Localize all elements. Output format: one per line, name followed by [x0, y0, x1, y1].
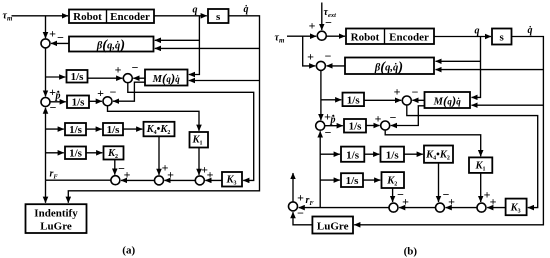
- svg-text:1/s: 1/s: [346, 175, 360, 187]
- block s: [208, 9, 229, 23]
- wire rF up into S3: [45, 108, 47, 181]
- wire K3 to T8 b: [487, 207, 505, 209]
- sign plus T7 right: [448, 195, 455, 209]
- label tau_ext input: [324, 7, 337, 19]
- svg-text:β(q,q̇): β(q,q̇): [374, 59, 403, 75]
- sign plus S7 top: [201, 162, 208, 176]
- sign plus S2 left: [115, 63, 122, 77]
- svg-text:1/s: 1/s: [386, 149, 400, 161]
- wire row3 second to K4K2: [123, 128, 142, 130]
- wire row4 to K2: [86, 152, 102, 154]
- summer T9: [289, 202, 298, 211]
- sign minus T4 bottom: [325, 126, 332, 140]
- node q label b: [475, 26, 480, 37]
- svg-text:Encoder: Encoder: [389, 32, 429, 44]
- block Robot/Encoder b: [346, 29, 434, 45]
- summer T6: [389, 203, 398, 212]
- block integrator 1/s row2: [67, 96, 89, 109]
- svg-text:+: +: [394, 85, 401, 99]
- wire tau_m to Robot: [12, 15, 69, 17]
- wire trunk junction up into T4 b: [319, 131, 321, 207]
- summer S4: [103, 97, 112, 106]
- summer S7: [195, 176, 204, 185]
- summer T4 phat b: [316, 121, 325, 130]
- svg-text:Robot: Robot: [351, 32, 380, 44]
- sign minus S4 right: [110, 85, 117, 99]
- sign minus S2 right: [132, 61, 139, 75]
- sign plus S7 right: [207, 168, 214, 182]
- summer T8: [477, 203, 486, 212]
- svg-text:q: q: [193, 5, 198, 16]
- wire branch to integrator row3 b: [320, 153, 340, 155]
- wire tau_m to summer T1: [287, 35, 316, 37]
- wire Encoder to s b: [434, 36, 491, 38]
- block integrator 1/s row3 first b: [341, 147, 364, 162]
- svg-text:(a): (a): [122, 245, 135, 257]
- wire rF branch to integrator row4: [46, 152, 64, 154]
- svg-text:LuGre: LuGre: [40, 221, 72, 233]
- wire tau_m branch down to summer S1: [45, 16, 47, 38]
- wire q vertical to beta upper and M upper: [189, 16, 200, 75]
- sign minus S1 right: [57, 31, 64, 45]
- svg-text:LuGre: LuGre: [317, 221, 349, 233]
- wire S4 output to K1: [108, 106, 200, 131]
- wire T5 output to K1 b: [385, 130, 481, 156]
- svg-text:K4•K2: K4•K2: [425, 149, 450, 161]
- sign minus S3 bottom: [50, 101, 57, 115]
- sign minus S5 top: [118, 162, 125, 176]
- svg-text:K4•K2: K4•K2: [146, 124, 171, 136]
- wire T2 down to T4: [320, 70, 322, 120]
- svg-text:s: s: [500, 32, 505, 44]
- wire S6 to S5: [121, 179, 155, 181]
- block K3: [222, 172, 242, 187]
- svg-text:−: −: [325, 16, 332, 30]
- wire M second output down to S4: [113, 82, 145, 101]
- block K1: [190, 132, 209, 148]
- svg-text:s: s: [216, 11, 221, 23]
- node q label: [193, 5, 198, 16]
- wire T8 to T7 b: [446, 207, 478, 209]
- label rF: [50, 169, 59, 181]
- wire branch to integrator row4 b: [320, 179, 340, 181]
- sign plus T8 right: [490, 195, 497, 209]
- summer S1: [41, 39, 50, 48]
- wire integrator1 to summer S2: [88, 77, 123, 79]
- block K4.K2 b: [424, 146, 453, 163]
- wire S2 output to K3: [128, 83, 254, 181]
- wire qdot to M lower input: [189, 80, 260, 82]
- svg-text:−: −: [297, 206, 304, 220]
- sign plus S3 top: [49, 85, 56, 99]
- wire Encoder to s: [154, 15, 207, 17]
- svg-text:−: −: [132, 61, 139, 75]
- label tau_m input: [3, 11, 13, 23]
- svg-text:1/s: 1/s: [346, 149, 360, 161]
- label qdot: [244, 4, 249, 15]
- wire K2 down to T6 b: [392, 188, 394, 202]
- svg-text:−: −: [325, 126, 332, 140]
- svg-text:−: −: [397, 188, 404, 202]
- svg-text:1/s: 1/s: [69, 148, 83, 160]
- svg-text:1/s: 1/s: [72, 97, 86, 109]
- block Robot/Encoder: [69, 10, 154, 24]
- sign plus S4 left: [97, 86, 104, 100]
- wire S7 to S6: [165, 179, 196, 181]
- block integrator 1/s row4 b: [341, 173, 363, 187]
- summer S2: [123, 74, 132, 83]
- svg-text:1/s: 1/s: [107, 124, 121, 136]
- block K2 b: [382, 172, 405, 188]
- sign plus T6 right: [402, 195, 409, 209]
- wire T9 rF output upward: [292, 173, 294, 202]
- wire s output to qdot vertical then LuGre: [354, 37, 543, 225]
- wire T6 to T9 rF line: [299, 207, 390, 209]
- sign minus T9 bottom: [297, 206, 304, 220]
- label rF b: [306, 195, 315, 207]
- sign minus T7 top: [443, 188, 450, 202]
- wire row3 second to K4K2 b: [404, 153, 423, 155]
- sign minus T1 right: [325, 16, 332, 30]
- wire row4 to K2 b: [363, 179, 380, 181]
- block beta(q,qdot): [69, 37, 154, 54]
- wire integrator2 to T5 b: [366, 125, 380, 127]
- wire T4 to integrator row2 b: [325, 125, 343, 127]
- wire rF branch to integrator row3: [46, 128, 64, 130]
- block integrator 1/s row1 b: [343, 93, 365, 107]
- summer S6: [155, 176, 164, 185]
- wire integrator2 to S4: [89, 100, 102, 102]
- svg-text:M(q)q̇: M(q)q̇: [152, 71, 181, 86]
- wire K2 down to S5: [114, 160, 116, 175]
- block K4.K2: [144, 122, 175, 137]
- wire T7 to T6 b: [399, 207, 436, 209]
- wire S3 to integrator row2: [50, 101, 66, 103]
- block integrator 1/s row4: [65, 147, 86, 160]
- wire branch to integrator row1 b: [321, 99, 341, 101]
- wire M second output down to T5 b: [391, 106, 425, 126]
- wire tau_m branch down to summer T2: [303, 36, 316, 66]
- wire integrator1 to T3 b: [364, 99, 401, 101]
- caption (b): [404, 246, 418, 258]
- block K2: [104, 146, 124, 160]
- svg-text:−: −: [443, 188, 450, 202]
- caption (a): [122, 245, 135, 257]
- wire q vertical to M upper b: [472, 37, 481, 98]
- wire K1 to T8 b: [480, 173, 482, 202]
- wire beta to T2: [327, 65, 346, 67]
- wire qdot to beta lower input: [155, 47, 260, 49]
- svg-text:+: +: [490, 195, 497, 209]
- svg-text:q̇: q̇: [528, 25, 533, 36]
- wire K1 to S7: [198, 148, 200, 175]
- summer T7: [436, 203, 445, 212]
- wire K4K2 down to T7 b: [438, 163, 440, 202]
- sign minus T3 right: [412, 85, 419, 99]
- label qdot b: [528, 25, 533, 36]
- label phat dot b: [330, 115, 336, 126]
- sign plus T1 left: [309, 19, 316, 33]
- svg-text:+: +: [49, 27, 56, 41]
- svg-text:−: −: [412, 85, 419, 99]
- summer T5: [381, 121, 390, 130]
- svg-text:+: +: [309, 19, 316, 33]
- summer T3: [402, 96, 411, 105]
- svg-text:+: +: [115, 63, 122, 77]
- wire q to beta upper input: [155, 39, 200, 41]
- svg-text:−: −: [118, 162, 125, 176]
- block integrator 1/s row3 first: [65, 123, 86, 136]
- wire S5 output left to trunk rF: [46, 179, 112, 181]
- wire T3 output to K3 b: [407, 105, 538, 208]
- svg-text:1/s: 1/s: [347, 94, 361, 106]
- svg-text:M(q)q̇: M(q)q̇: [433, 93, 462, 108]
- svg-text:1/s: 1/s: [69, 124, 83, 136]
- svg-text:β(q,q̇): β(q,q̇): [96, 37, 125, 53]
- wire row3 first to second b: [364, 153, 379, 155]
- sign minus T5 right: [390, 111, 397, 125]
- wire beta to S1: [51, 42, 69, 44]
- wire T1 to Robot: [326, 35, 345, 37]
- summer S3 phat: [41, 98, 50, 107]
- sign plus T8 top: [484, 188, 491, 202]
- sign plus S6 right: [167, 168, 174, 182]
- svg-text:Indentify: Indentify: [34, 208, 78, 220]
- wire K4K2 down to S6: [158, 136, 160, 175]
- svg-text:+: +: [207, 168, 214, 182]
- sign plus S1 top: [49, 27, 56, 41]
- svg-text:q: q: [475, 26, 480, 37]
- wire M to S2: [133, 77, 145, 79]
- svg-text:−: −: [57, 31, 64, 45]
- label phat dot: [55, 91, 61, 102]
- block s b: [492, 29, 512, 45]
- svg-text:−: −: [390, 111, 397, 125]
- block integrator 1/s row3 second: [103, 123, 123, 136]
- block beta(q,qdot) b: [345, 58, 434, 76]
- wire qdot to M lower input b: [472, 104, 544, 106]
- wire s output to right vertical qdot: [68, 16, 259, 203]
- wire row3 first to second: [86, 128, 102, 130]
- block M(q)qdot: [145, 70, 188, 86]
- sign plus T5 left: [375, 112, 382, 126]
- sign plus S5 right: [124, 168, 131, 182]
- svg-text:q̇: q̇: [244, 4, 249, 15]
- svg-text:−: −: [110, 85, 117, 99]
- svg-text:1/s: 1/s: [349, 121, 363, 133]
- wire rF down to Identify: [45, 180, 47, 203]
- svg-text:p̂̇: p̂̇: [330, 115, 336, 126]
- sign plus T3 left: [394, 85, 401, 99]
- wire q to beta upper input b: [436, 60, 481, 62]
- block integrator 1/s row1: [67, 70, 88, 83]
- wire K3 to S7: [205, 179, 222, 181]
- sign plus S6 top: [162, 161, 169, 175]
- svg-text:+: +: [162, 161, 169, 175]
- summer T2: [316, 61, 325, 70]
- svg-text:−: −: [325, 49, 332, 63]
- svg-text:Encoder: Encoder: [110, 11, 150, 23]
- sign minus T2 right: [325, 49, 332, 63]
- sign plus T9 right: [297, 191, 304, 205]
- svg-text:+: +: [297, 191, 304, 205]
- wire tau_ext down to summer T1: [321, 3, 323, 31]
- svg-text:+: +: [307, 50, 314, 64]
- sign minus T6 top: [397, 188, 404, 202]
- svg-text:Robot: Robot: [73, 11, 102, 23]
- svg-text:−: −: [50, 101, 57, 115]
- block M(q)qdot b: [425, 92, 471, 108]
- svg-text:(b): (b): [404, 246, 418, 258]
- wire S1 down to S3: [45, 48, 47, 97]
- block Identify LuGre: [26, 204, 87, 233]
- summer S5: [111, 176, 120, 185]
- block LuGre b: [312, 217, 353, 234]
- label tau_m input b: [275, 33, 285, 45]
- wire LuGre to T9: [293, 212, 312, 225]
- wire branch to integrator 1: [46, 76, 66, 78]
- sign plus T2 left: [307, 50, 314, 64]
- block integrator 1/s row2 b: [344, 119, 366, 133]
- svg-text:1/s: 1/s: [71, 71, 85, 83]
- block K3 b: [506, 199, 527, 216]
- block K1 b: [469, 157, 492, 173]
- block integrator 1/s row3 second b: [381, 147, 405, 162]
- svg-text:+: +: [97, 86, 104, 100]
- sign plus T4 top: [324, 110, 331, 124]
- wire qdot to beta lower input b: [436, 69, 544, 71]
- summer T1: [317, 31, 326, 40]
- wire M to T3 b: [412, 99, 424, 101]
